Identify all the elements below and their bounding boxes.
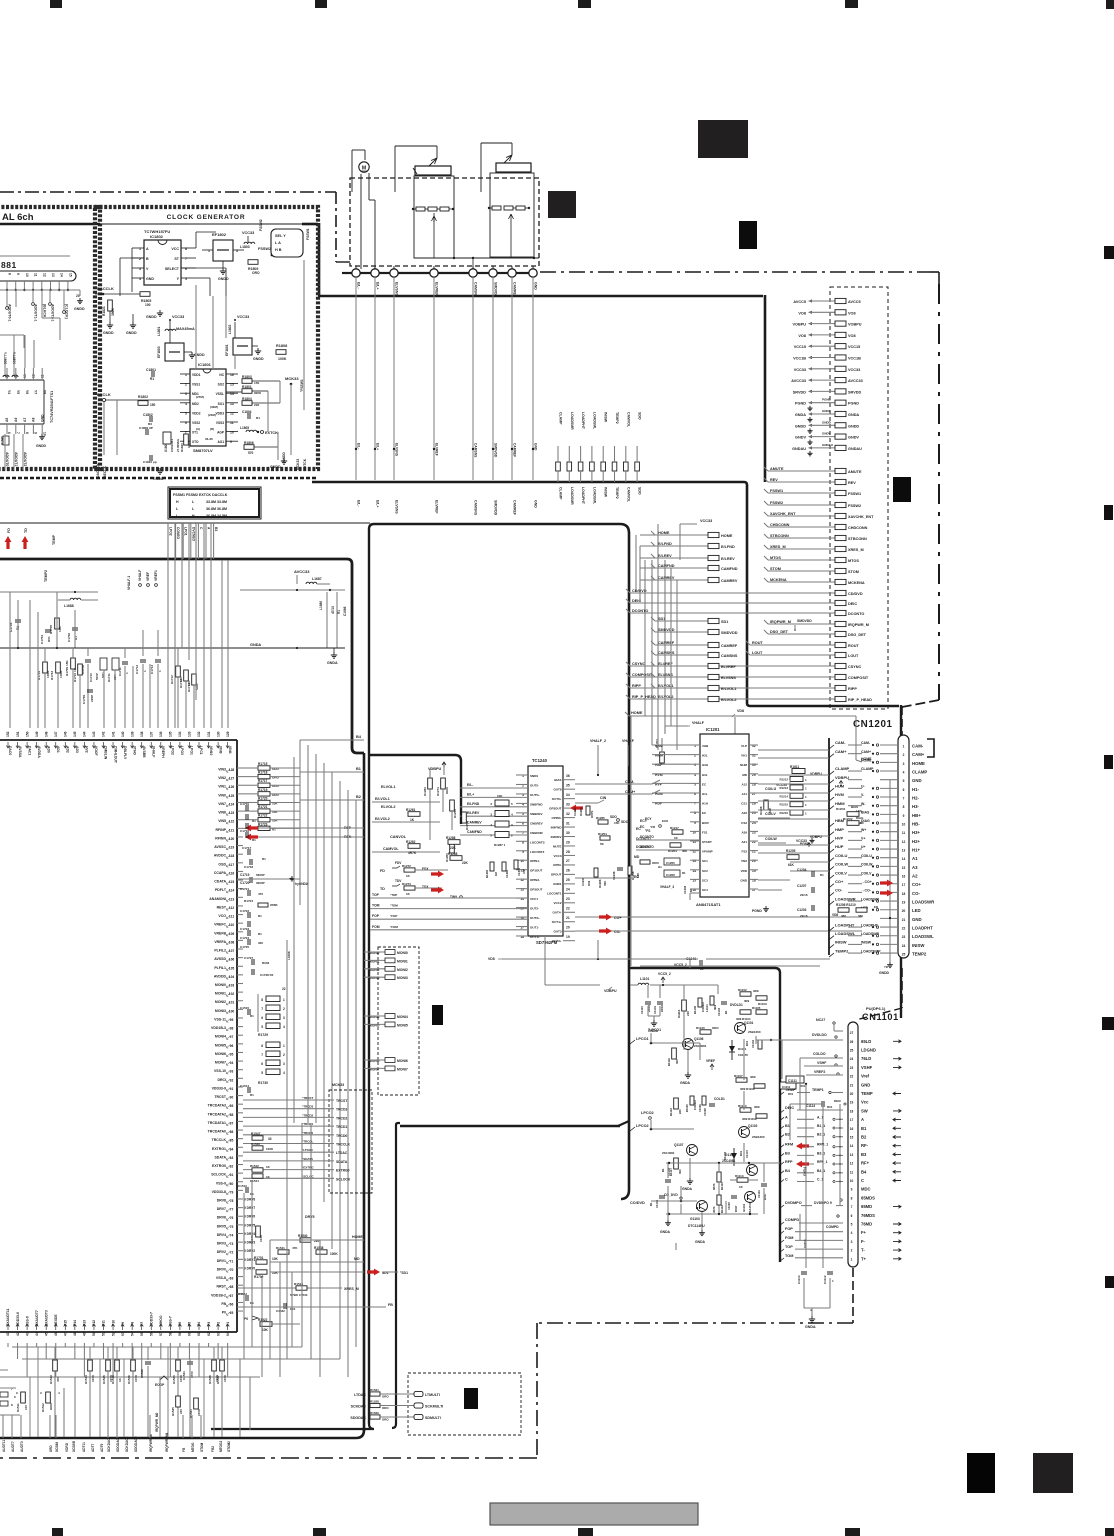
svg-text:95: 95 — [230, 1052, 234, 1056]
svg-text:15: 15 — [68, 273, 72, 277]
svg-text:R1730: R1730 — [258, 1081, 268, 1085]
svg-text:C1109: C1109 — [727, 1202, 731, 1210]
hatched strip below blocks — [0, 477, 318, 480]
svg-text:AMUTE: AMUTE — [848, 470, 862, 474]
svg-text:ORO: ORO — [382, 1406, 389, 1410]
svg-text:500P: 500P — [95, 673, 99, 680]
svg-text:VSSL: VSSL — [216, 392, 224, 396]
wires IC1201 to CN bus — [758, 749, 829, 751]
resistor R1116 390 — [672, 1048, 677, 1059]
black patch C — [739, 221, 757, 249]
svg-text:DSG_DET: DSG_DET — [848, 633, 867, 637]
svg-text:65MD: 65MD — [861, 1204, 872, 1209]
svg-text:149: 149 — [35, 731, 39, 737]
svg-text:CAM+: CAM+ — [835, 749, 847, 754]
coil 1 outline box — [414, 176, 454, 258]
svg-text:MONI2: MONI2 — [215, 1000, 226, 1004]
svg-text:COILU: COILU — [765, 787, 777, 791]
svg-text:31: 31 — [566, 821, 570, 825]
svg-text:L1686: L1686 — [319, 601, 323, 610]
svg-text:Y5: Y5 — [16, 390, 20, 394]
svg-text:D1101: D1101 — [738, 1047, 747, 1051]
svg-text:R01: R01 — [827, 1105, 833, 1109]
svg-text:CNBFND: CNBFND — [530, 831, 543, 835]
svg-text:AVCC33: AVCC33 — [848, 379, 863, 383]
svg-text:21: 21 — [902, 918, 906, 922]
svg-text:L1802: L1802 — [228, 324, 232, 334]
svg-text:2: 2 — [283, 1053, 285, 1057]
svg-text:FB: FB — [221, 1302, 226, 1306]
GNDA symbol right — [333, 652, 335, 655]
svg-text:VCC3: VCC3 — [553, 854, 561, 858]
wire CAM+ row — [575, 793, 652, 795]
svg-text:81: 81 — [230, 1173, 234, 1177]
svg-text:VLP: VLP — [741, 744, 747, 748]
resistor R1102 3R9 — [740, 992, 751, 996]
svg-text:130: 130 — [216, 731, 220, 737]
svg-text:ST: ST — [174, 257, 179, 261]
resistor R1511 100 — [21, 1392, 26, 1403]
svg-text:3: 3 — [283, 1016, 285, 1020]
svg-text:32: 32 — [566, 812, 570, 816]
black patch right edge 2 — [1104, 505, 1113, 520]
svg-text:2SC4081: 2SC4081 — [662, 1151, 675, 1155]
resistor network R1729 — [266, 996, 280, 1002]
svg-text:GNDD: GNDD — [126, 331, 137, 335]
svg-text:5: 5 — [903, 779, 905, 783]
svg-text:C1720: C1720 — [240, 881, 250, 885]
svg-text:GNDA: GNDA — [250, 643, 261, 647]
EF1802 ground — [222, 261, 224, 268]
svg-text:SD1: SD1 — [721, 620, 728, 624]
svg-text:10K: 10K — [272, 1257, 279, 1261]
svg-text:RFINN: RFINN — [215, 836, 226, 840]
svg-text:A7: A7 — [23, 418, 27, 422]
cap C1717 — [247, 849, 249, 855]
svg-text:HOME: HOME — [352, 1235, 363, 1239]
svg-text:VDD33-9: VDD33-9 — [212, 1086, 226, 1090]
svg-text:IRQPWR_M0: IRQPWR_M0 — [155, 1412, 159, 1432]
digital block title divider — [0, 223, 100, 225]
gray verticals between laser and CN1101 — [781, 1040, 783, 1079]
svg-text:VCC15: VCC15 — [848, 345, 860, 349]
svg-text:VSHF: VSHF — [861, 1065, 873, 1070]
svg-text:CO/DVD: CO/DVD — [630, 1201, 645, 1205]
svg-text:15: 15 — [902, 866, 906, 870]
svg-text:HVP: HVP — [835, 836, 844, 841]
svg-text:142: 142 — [102, 731, 106, 737]
registration mark top 4 — [845, 0, 858, 8]
svg-text:ECK: ECK — [662, 819, 669, 823]
svg-text:19: 19 — [566, 935, 570, 939]
wire from coil1 to circles — [433, 213, 435, 222]
svg-text:C1804: C1804 — [242, 410, 252, 414]
audio block top right corner — [620, 524, 629, 1199]
svg-text:(D): (D) — [210, 427, 214, 431]
svg-text:R1114: R1114 — [677, 1009, 681, 1018]
transistor Q1107 — [687, 1145, 698, 1156]
svg-text:CAM-: CAM- — [912, 744, 924, 749]
svg-text:IC1802: IC1802 — [150, 234, 164, 239]
svg-text:LOCONT3: LOCONT3 — [530, 850, 545, 854]
svg-text:79: 79 — [230, 1190, 234, 1194]
svg-text:78: 78 — [230, 1199, 234, 1203]
wires mechanism to HOME rows — [640, 534, 655, 536]
svg-text:VCC33: VCC33 — [700, 519, 712, 523]
svg-text:36.8M 24.5M: 36.8M 24.5M — [206, 514, 227, 518]
svg-text:R1711: R1711 — [107, 673, 111, 682]
caps C1715 C1716 column — [245, 805, 247, 811]
svg-text:R01: R01 — [739, 1150, 743, 1156]
svg-text:C1106: C1106 — [698, 1104, 702, 1112]
svg-text:19: 19 — [850, 1101, 854, 1105]
wires IC1201 bottom — [690, 892, 700, 894]
svg-text:62: 62 — [207, 1332, 211, 1336]
cap C1728 R1 — [251, 969, 253, 975]
svg-text:100K: 100K — [91, 1374, 95, 1382]
svg-text:COMPOSIT: COMPOSIT — [848, 676, 869, 680]
svg-text:HOME: HOME — [631, 711, 643, 715]
resistor R1801 — [242, 389, 252, 394]
svg-text:1: 1 — [851, 1257, 853, 1261]
resistor R1203 vertical — [660, 752, 665, 763]
svg-text:AVSBB: AVSBB — [142, 746, 146, 758]
svg-text:72: 72 — [230, 1251, 234, 1255]
svg-text:ROUT: ROUT — [848, 644, 859, 648]
svg-text:VDD3: VDD3 — [215, 411, 224, 415]
svg-text:91: 91 — [230, 1087, 234, 1091]
svg-text:STBCONN: STBCONN — [770, 534, 789, 538]
svg-text:FB: FB — [182, 1447, 186, 1452]
svg-text:9: 9 — [34, 432, 38, 434]
svg-text:22K: 22K — [462, 861, 469, 865]
svg-text:DVDMPO: DVDMPO — [785, 1201, 802, 1205]
svg-text:IRQPWR_M: IRQPWR_M — [770, 620, 791, 624]
svg-text:33: 33 — [566, 802, 570, 806]
red arrow RFM — [796, 1143, 809, 1150]
svg-text:Q1106: Q1106 — [694, 1037, 704, 1041]
svg-text:CANVOL: CANVOL — [390, 835, 407, 839]
svg-text:C1713: C1713 — [150, 665, 154, 674]
svg-text:C1208: C1208 — [683, 885, 687, 894]
svg-text:GNDAU: GNDAU — [822, 443, 833, 447]
svg-text:COILU: COILU — [835, 853, 848, 858]
svg-text:R1215: R1215 — [779, 803, 788, 807]
svg-text:BIAS: BIAS — [861, 811, 870, 815]
svg-text:C1725: C1725 — [240, 945, 249, 949]
svg-text:MONI5: MONI5 — [215, 1043, 226, 1047]
svg-text:R1526: R1526 — [111, 1375, 115, 1384]
svg-text:112: 112 — [229, 906, 234, 910]
svg-text:4: 4 — [851, 1231, 853, 1235]
row FOP pin4 — [779, 1231, 784, 1235]
svg-text:ANAMONI: ANAMONI — [209, 897, 226, 901]
svg-text:R1: R1 — [689, 888, 693, 892]
svg-text:SDMULTI: SDMULTI — [425, 1416, 441, 1420]
svg-text:100K: 100K — [266, 1147, 274, 1151]
svg-text:VDBPU: VDBPU — [810, 835, 822, 839]
svg-text:ELVSNS: ELVSNS — [395, 500, 399, 514]
registration mark bottom 3 — [578, 1528, 593, 1536]
svg-text:VDD33-8: VDD33-8 — [212, 1190, 226, 1194]
svg-text:VCC1: VCC1 — [530, 897, 538, 901]
svg-text:AVSSD: AVSSD — [214, 957, 226, 961]
svg-text:33-36: 33-36 — [205, 437, 213, 441]
cap C1712 — [140, 659, 146, 661]
svg-text:VIN3: VIN3 — [218, 768, 226, 772]
CN1201 bracket mark — [927, 739, 934, 757]
svg-text:COILW: COILW — [835, 862, 848, 867]
svg-text:C1718: C1718 — [244, 865, 253, 869]
svg-text:49: 49 — [83, 1332, 87, 1336]
svg-text:DRV7: DRV7 — [217, 1207, 226, 1211]
svg-text:27: 27 — [566, 859, 570, 863]
svg-text:ORO: ORO — [252, 271, 260, 275]
svg-text:SMDVDD: SMDVDD — [494, 500, 498, 516]
pickup signal rows A..C — [779, 1117, 784, 1121]
svg-text:SO1: SO1 — [218, 402, 225, 406]
svg-text:VIN1: VIN1 — [218, 785, 226, 789]
svg-text:R1529: R1529 — [370, 1411, 379, 1415]
svg-text:XRES_M: XRES_M — [344, 1287, 359, 1291]
wire BECLK vertical — [116, 400, 118, 455]
svg-text:136: 136 — [159, 731, 163, 737]
svg-text:DEIC: DEIC — [834, 1099, 842, 1103]
svg-text:LOADSWR: LOADSWR — [835, 896, 856, 901]
ground mid — [132, 322, 134, 325]
svg-text:CAMREF: CAMREF — [721, 644, 738, 648]
svg-text:B2: B2 — [785, 1133, 790, 1137]
svg-text:AVSSA: AVSSA — [18, 746, 22, 758]
svg-text:DCONTO: DCONTO — [848, 612, 864, 616]
svg-text:122: 122 — [229, 820, 235, 824]
svg-text:VDRD: VDRD — [65, 1442, 69, 1452]
svg-text:DRV2: DRV2 — [217, 1250, 226, 1254]
mechanism dashed enclosure — [350, 178, 539, 266]
svg-text:ORO: ORO — [445, 787, 449, 795]
svg-text:11: 11 — [850, 1170, 854, 1174]
svg-text:C1206: C1206 — [666, 873, 675, 877]
ground GNDA mid2 — [689, 1178, 691, 1181]
svg-text:R1118: R1118 — [669, 1108, 673, 1116]
svg-text:°TRCD1: °TRCD1 — [302, 1122, 314, 1126]
svg-text:CAMREV: CAMREV — [467, 821, 482, 825]
svg-text:VHALF: VHALF — [138, 570, 142, 581]
ground right clock — [283, 458, 285, 461]
svg-text:27: 27 — [850, 1031, 854, 1035]
svg-text:CAMFND: CAMFND — [467, 830, 482, 834]
svg-text:106: 106 — [229, 958, 235, 962]
focus coil 2 body — [496, 163, 531, 172]
svg-text:E/L-: E/L- — [357, 443, 361, 449]
svg-text:17: 17 — [902, 883, 906, 887]
svg-text:MONI3: MONI3 — [215, 1009, 226, 1013]
svg-text:XTO: XTO — [192, 440, 199, 444]
svg-text:°FOM: °FOM — [390, 925, 398, 929]
svg-text:C1512: C1512 — [238, 1292, 247, 1296]
svg-text:24: 24 — [850, 1057, 854, 1061]
svg-text:B1: B1 — [356, 767, 361, 771]
svg-text:(BLKCK): (BLKCK) — [43, 304, 47, 319]
svg-text:R1212: R1212 — [779, 778, 788, 782]
svg-text:CAMVOL: CAMVOL — [383, 847, 399, 851]
svg-text:R1: R1 — [150, 377, 154, 381]
svg-text:R1720: R1720 — [258, 796, 268, 800]
svg-text:°LTDAC: °LTDAC — [302, 1148, 314, 1152]
resistor ladder R1212-R1216 — [790, 777, 803, 782]
svg-text:RFP: RFP — [785, 1160, 793, 1164]
svg-text:°TRCCL: °TRCCL — [302, 1140, 314, 1144]
svg-text:VO8: VO8 — [798, 334, 806, 338]
resistor R1264 5K — [600, 836, 610, 840]
black patch A (over schematic, upper middle) — [698, 120, 748, 158]
svg-text:GNDV: GNDV — [795, 436, 806, 440]
svg-text:6: 6 — [851, 1214, 853, 1218]
svg-text:137: 137 — [149, 731, 153, 737]
svg-text:A2: A2 — [912, 874, 918, 879]
cap C1706 R1 — [72, 627, 78, 629]
svg-text:(27M): (27M) — [196, 395, 204, 399]
svg-text:E/L-: E/L- — [467, 783, 473, 787]
svg-text:C1204: C1204 — [797, 868, 807, 872]
svg-text:B2: B2 — [356, 795, 361, 799]
svg-text:CAMSNS: CAMSNS — [474, 500, 478, 516]
bottom bus line 2 — [22, 1358, 340, 1360]
svg-text:PGND: PGND — [752, 909, 762, 913]
svg-text:B4_1: B4_1 — [817, 1169, 825, 1173]
svg-text:R1801: R1801 — [242, 385, 252, 389]
svg-text:R1701: R1701 — [254, 1256, 264, 1260]
svg-text:DTC114EU: DTC114EU — [688, 1224, 705, 1228]
black patch bottom right 2 — [1033, 1453, 1073, 1493]
svg-text:23: 23 — [76, 294, 80, 298]
svg-text:MONI3: MONI3 — [397, 976, 408, 980]
svg-text:R1802: R1802 — [138, 395, 148, 399]
svg-text:C1203: C1203 — [797, 908, 807, 912]
svg-text:470: 470 — [258, 892, 263, 896]
svg-text:CAMVOL: CAMVOL — [626, 412, 630, 428]
svg-text:R1546: R1546 — [127, 1375, 131, 1384]
svg-text:MD: MD — [634, 855, 640, 859]
cap C1111 box — [780, 1082, 796, 1089]
IC EF1802 body — [213, 240, 233, 261]
svg-text:B2_1: B2_1 — [817, 1133, 825, 1137]
svg-text:9 DRV8: 9 DRV8 — [244, 1198, 255, 1202]
svg-text:DRV6: DRV6 — [217, 1216, 226, 1220]
svg-text:COILU: COILU — [861, 854, 872, 858]
cap C1512 R1 — [245, 1295, 247, 1301]
svg-text:CLAMP: CLAMP — [559, 487, 563, 500]
thick left block border bottom corner — [0, 1430, 364, 1438]
svg-text:P0: P0 — [222, 1311, 226, 1315]
svg-text:C1111: C1111 — [788, 1079, 797, 1083]
svg-text:R1214: R1214 — [779, 794, 788, 798]
svg-text:R1541: R1541 — [276, 1246, 285, 1250]
svg-text:H3-: H3- — [912, 804, 919, 809]
svg-text:R047: R047 — [734, 1205, 738, 1212]
svg-text:INISW: INISW — [604, 487, 608, 498]
svg-text:MONI4: MONI4 — [397, 1015, 408, 1019]
svg-text:VCC5_2: VCC5_2 — [658, 972, 671, 976]
svg-text:R1113: R1113 — [735, 1174, 744, 1178]
svg-text:24: 24 — [566, 888, 570, 892]
svg-text:143: 143 — [92, 731, 96, 737]
svg-text:ELVSNS: ELVSNS — [395, 443, 399, 457]
svg-text:P0: P0 — [244, 1317, 248, 1321]
svg-text:LPCO2: LPCO2 — [641, 1111, 654, 1115]
svg-text:C1722: C1722 — [240, 909, 249, 913]
svg-text:4: 4 — [903, 771, 905, 775]
svg-text:A11: A11 — [742, 792, 748, 796]
wire MD row — [270, 1261, 364, 1263]
svg-text:VIN2: VIN2 — [218, 776, 226, 780]
svg-text:47K: 47K — [292, 1246, 298, 1250]
svg-text:E/LFND: E/LFND — [658, 542, 672, 546]
svg-text:°TOP: °TOP — [390, 893, 397, 897]
svg-text:NRST: NRST — [216, 1285, 226, 1289]
svg-text:PDFLT: PDFLT — [215, 888, 227, 892]
cluster C1532 R01 — [283, 1303, 285, 1309]
svg-text:RIP_P_HEAD: RIP_P_HEAD — [848, 698, 872, 702]
resistor R1268 22K — [450, 856, 462, 861]
svg-text:CAMREF: CAMREF — [513, 443, 517, 457]
svg-text:14: 14 — [850, 1144, 854, 1148]
svg-text:OUT8: OUT8 — [553, 787, 561, 791]
cap C1713 — [155, 659, 161, 661]
svg-text:L1698: L1698 — [287, 951, 291, 960]
ground IC1801 area — [159, 468, 161, 471]
cluster C1721 470 — [247, 890, 249, 896]
svg-text:°TRCST: °TRCST — [302, 1096, 313, 1100]
svg-text:CCAPA: CCAPA — [214, 871, 227, 875]
svg-text:H1: H1 — [658, 865, 662, 869]
svg-text:ORO: ORO — [712, 1026, 719, 1030]
svg-text:T-: T- — [861, 1248, 865, 1253]
svg-text:C1205: C1205 — [666, 861, 675, 865]
svg-text:GNDA: GNDA — [660, 1230, 671, 1234]
svg-text:10K: 10K — [497, 794, 503, 798]
svg-text:R1803: R1803 — [242, 375, 252, 379]
svg-text:R1: R1 — [820, 873, 824, 877]
resistor R1117 390 — [674, 1158, 679, 1169]
svg-text:1: 1 — [283, 998, 285, 1002]
main IC body outline — [0, 739, 237, 741]
svg-text:145: 145 — [73, 731, 77, 737]
resistor R1208 61K — [764, 800, 768, 810]
unit boundary dash-dot bottom left — [0, 1457, 537, 1459]
svg-text:CHDCONN: CHDCONN — [770, 523, 790, 527]
svg-text:R1528: R1528 — [370, 1400, 379, 1404]
registration mark bottom 4 — [845, 1528, 860, 1536]
svg-text:133: 133 — [188, 731, 192, 737]
svg-text:33.8M 33.8M: 33.8M 33.8M — [206, 500, 227, 504]
svg-text:46: 46 — [54, 1332, 58, 1336]
black patch right edge 4 — [1102, 1017, 1114, 1030]
coil 1 inner arrow — [432, 216, 437, 226]
svg-text:GNDAU: GNDAU — [792, 447, 806, 451]
resistor R1114 220 — [682, 1000, 687, 1011]
svg-text:SRVDD: SRVDD — [793, 390, 806, 394]
svg-text:MTOG: MTOG — [191, 1442, 195, 1452]
svg-text:R1548: R1548 — [314, 1246, 324, 1250]
svg-text:H: H — [176, 500, 179, 504]
svg-text:22K: 22K — [450, 846, 457, 850]
svg-text:E/L+: E/L+ — [376, 282, 380, 290]
resistor R1274 vertical — [441, 778, 446, 789]
svg-text:R1547: R1547 — [251, 1132, 261, 1136]
resistor R1805 — [140, 292, 150, 297]
svg-text:390: 390 — [678, 1169, 682, 1174]
